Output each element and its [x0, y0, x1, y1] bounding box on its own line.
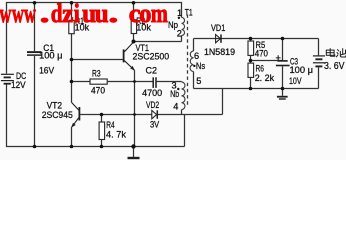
- svg-text:Nb: Nb: [170, 89, 179, 99]
- svg-text:T1: T1: [185, 7, 193, 17]
- svg-text:16V: 16V: [39, 65, 55, 76]
- svg-text:100 μ: 100 μ: [290, 65, 314, 76]
- svg-text:2SC2500: 2SC2500: [133, 51, 170, 62]
- svg-text:470: 470: [255, 48, 268, 59]
- svg-text:u: u: [95, 0, 109, 28]
- svg-text:100 μ: 100 μ: [39, 51, 62, 62]
- svg-text:1: 1: [177, 8, 182, 18]
- svg-text:5: 5: [196, 76, 201, 86]
- svg-text:1N5819: 1N5819: [204, 47, 235, 58]
- svg-text:10V: 10V: [289, 76, 302, 87]
- svg-text:C2: C2: [146, 65, 158, 76]
- svg-text:.: .: [40, 0, 50, 28]
- svg-text:3. 6V: 3. 6V: [324, 60, 345, 72]
- svg-text:2: 2: [177, 28, 182, 38]
- svg-text:2. 2k: 2. 2k: [255, 73, 275, 84]
- svg-text:VD1: VD1: [211, 23, 225, 34]
- svg-text:470: 470: [91, 86, 105, 97]
- svg-text:VD2: VD2: [146, 100, 159, 111]
- svg-text:2SC945: 2SC945: [42, 110, 73, 121]
- svg-text:4700: 4700: [142, 88, 162, 99]
- svg-text:+: +: [276, 53, 281, 63]
- svg-text:3V: 3V: [150, 119, 160, 130]
- svg-text:.: .: [108, 0, 118, 28]
- svg-text:w: w: [0, 0, 11, 28]
- svg-text:m: m: [151, 0, 168, 29]
- svg-text:12V: 12V: [11, 80, 26, 91]
- svg-text:4. 7k: 4. 7k: [106, 130, 126, 141]
- svg-text:z: z: [62, 0, 73, 28]
- svg-text:w: w: [12, 0, 24, 28]
- svg-text:w: w: [24, 0, 36, 28]
- svg-text:6: 6: [194, 51, 199, 61]
- svg-text:i: i: [74, 0, 80, 28]
- svg-text:R3: R3: [92, 69, 101, 80]
- svg-text:4: 4: [173, 102, 178, 112]
- svg-text:o: o: [139, 0, 151, 28]
- svg-text:Ns: Ns: [196, 61, 206, 71]
